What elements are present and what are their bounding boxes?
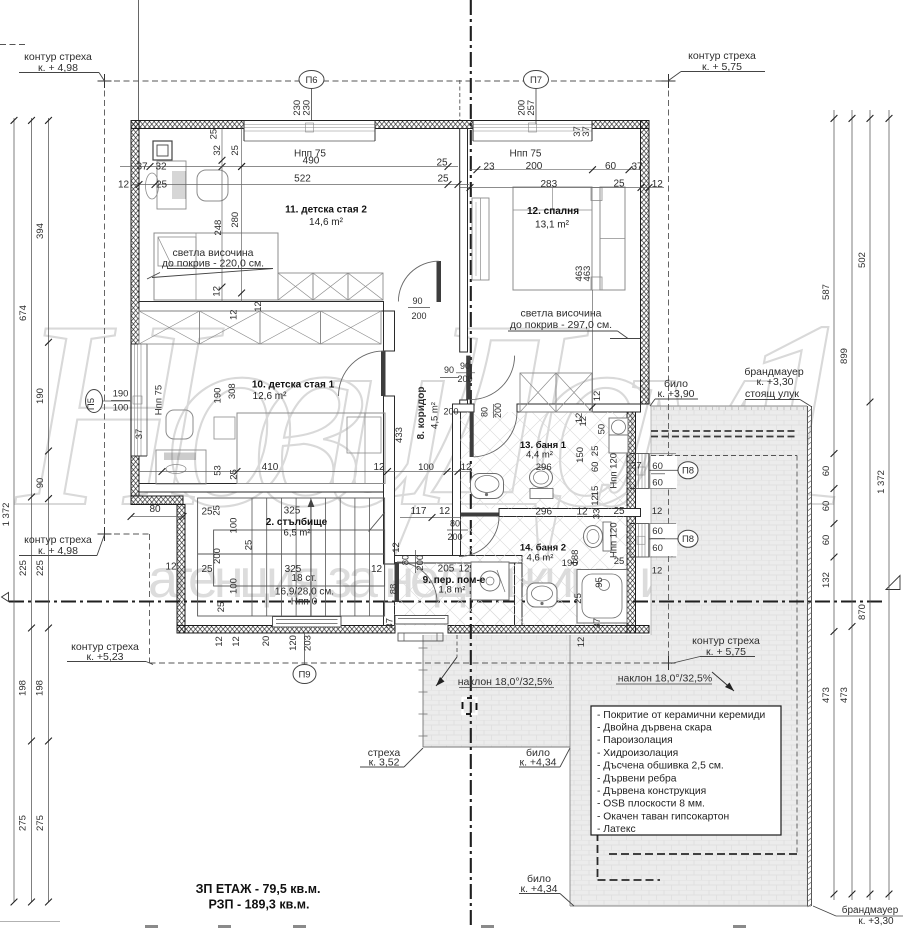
svg-text:60: 60: [652, 461, 663, 472]
svg-text:257: 257: [526, 100, 537, 116]
svg-text:200: 200: [526, 161, 543, 172]
svg-text:25: 25: [590, 446, 601, 457]
svg-text:37: 37: [136, 162, 148, 173]
svg-text:95: 95: [594, 577, 605, 588]
svg-text:25: 25: [244, 540, 255, 551]
svg-text:37: 37: [134, 429, 145, 440]
svg-text:наклон 18,0°/32,5%: наклон 18,0°/32,5%: [458, 676, 552, 688]
svg-text:490: 490: [303, 156, 320, 167]
svg-text:П8: П8: [682, 534, 694, 545]
svg-text:25: 25: [230, 145, 241, 156]
svg-text:80: 80: [480, 407, 490, 417]
svg-text:60: 60: [652, 543, 663, 554]
svg-text:90: 90: [35, 478, 46, 489]
svg-text:12: 12: [652, 566, 663, 577]
svg-text:60: 60: [652, 526, 663, 537]
svg-text:Нпп 75: Нпп 75: [154, 385, 165, 415]
svg-text:190: 190: [213, 388, 224, 404]
svg-text:18 ст.: 18 ст.: [291, 573, 316, 584]
svg-text:899: 899: [839, 348, 850, 364]
svg-text:- Дъсчена обшивка 2,5 см.: - Дъсчена обшивка 2,5 см.: [597, 760, 724, 772]
svg-text:200: 200: [212, 548, 223, 564]
svg-text:150: 150: [575, 447, 586, 463]
svg-text:13,1 m²: 13,1 m²: [535, 220, 570, 231]
svg-text:200: 200: [443, 407, 458, 417]
svg-text:280: 280: [230, 212, 241, 228]
svg-text:502: 502: [857, 252, 868, 268]
svg-text:12: 12: [458, 564, 470, 575]
svg-text:60: 60: [652, 478, 663, 489]
svg-text:120: 120: [288, 635, 299, 651]
svg-text:25: 25: [613, 179, 625, 190]
svg-text:11. детска стая 2: 11. детска стая 2: [285, 205, 367, 216]
svg-text:12: 12: [576, 637, 587, 648]
svg-text:25: 25: [573, 593, 584, 604]
svg-text:П8: П8: [682, 466, 694, 477]
svg-text:14,6 m²: 14,6 m²: [309, 217, 344, 228]
svg-text:12: 12: [118, 180, 130, 191]
svg-text:П7: П7: [530, 75, 542, 86]
svg-text:25: 25: [209, 129, 220, 140]
svg-text:198: 198: [35, 680, 46, 696]
svg-text:12. спалня: 12. спалня: [527, 206, 579, 217]
svg-text:37: 37: [385, 618, 396, 629]
svg-text:4,6 m²: 4,6 m²: [527, 553, 554, 564]
svg-text:25: 25: [216, 602, 227, 613]
svg-text:188: 188: [570, 550, 581, 566]
svg-text:870: 870: [857, 604, 868, 620]
svg-text:4,4 m²: 4,4 m²: [526, 450, 553, 461]
svg-text:50: 50: [597, 424, 608, 435]
svg-text:- Пароизолация: - Пароизолация: [597, 735, 673, 746]
svg-text:308: 308: [227, 383, 238, 399]
svg-text:190: 190: [35, 388, 46, 404]
svg-text:275: 275: [18, 815, 29, 831]
svg-text:473: 473: [839, 687, 850, 703]
svg-text:100: 100: [418, 462, 434, 473]
svg-text:25: 25: [212, 505, 223, 516]
svg-text:100: 100: [229, 518, 240, 534]
svg-text:296: 296: [536, 462, 552, 473]
svg-text:- Дървени ребра: - Дървени ребра: [597, 772, 677, 784]
svg-text:200: 200: [447, 532, 462, 542]
svg-text:Нпп 120: Нпп 120: [609, 522, 620, 558]
svg-text:25: 25: [614, 556, 625, 567]
svg-text:П9: П9: [298, 669, 310, 680]
svg-text:200: 200: [415, 555, 426, 571]
svg-text:132: 132: [821, 572, 832, 588]
svg-text:12: 12: [231, 636, 242, 647]
svg-text:12: 12: [652, 506, 663, 517]
svg-text:15: 15: [590, 486, 601, 497]
svg-text:325: 325: [284, 506, 301, 517]
svg-text:стоящ улук: стоящ улук: [745, 388, 799, 400]
svg-text:- Окачен таван гипсокартон: - Окачен таван гипсокартон: [597, 811, 729, 822]
svg-text:296: 296: [535, 506, 552, 517]
svg-text:32: 32: [155, 162, 167, 173]
svg-text:Нпп 75: Нпп 75: [510, 149, 542, 160]
svg-text:12: 12: [214, 636, 225, 647]
svg-text:до покрив - 220,0 см.: до покрив - 220,0 см.: [162, 258, 264, 270]
svg-text:473: 473: [821, 687, 832, 703]
svg-text:П6: П6: [305, 75, 317, 86]
svg-text:1 372: 1 372: [1, 503, 12, 527]
svg-text:37: 37: [631, 461, 642, 472]
svg-text:53: 53: [213, 465, 224, 476]
svg-text:12: 12: [373, 462, 385, 473]
svg-text:к. +3,30: к. +3,30: [757, 376, 794, 388]
svg-text:12: 12: [253, 301, 264, 312]
svg-text:200: 200: [411, 311, 426, 321]
svg-text:587: 587: [821, 284, 832, 300]
svg-text:283: 283: [540, 179, 557, 190]
svg-text:230: 230: [302, 100, 313, 116]
svg-text:248: 248: [213, 220, 224, 236]
svg-text:80: 80: [149, 504, 161, 515]
svg-text:88: 88: [389, 584, 400, 595]
svg-text:410: 410: [262, 462, 279, 473]
svg-text:117: 117: [411, 506, 427, 517]
svg-text:- Дървена конструкция: - Дървена конструкция: [597, 786, 706, 797]
svg-text:200: 200: [493, 403, 503, 418]
svg-text:203: 203: [302, 635, 313, 651]
svg-text:20: 20: [261, 636, 272, 647]
svg-text:60: 60: [590, 462, 601, 473]
svg-text:1,8 m²: 1,8 m²: [439, 585, 466, 596]
svg-text:до покрив - 297,0 см.: до покрив - 297,0 см.: [510, 319, 612, 331]
svg-text:12: 12: [371, 564, 383, 575]
svg-text:37: 37: [592, 618, 603, 629]
svg-text:225: 225: [18, 560, 29, 576]
svg-text:светла височина: светла височина: [520, 308, 601, 320]
svg-text:522: 522: [294, 174, 311, 185]
svg-text:12: 12: [461, 462, 472, 473]
svg-text:12: 12: [212, 286, 223, 297]
svg-text:- Хидроизолация: - Хидроизолация: [597, 748, 678, 759]
svg-text:12: 12: [229, 309, 240, 320]
svg-text:25: 25: [156, 180, 168, 191]
svg-text:25: 25: [437, 174, 449, 185]
svg-text:- Двойна дървена скара: - Двойна дървена скара: [597, 723, 712, 734]
svg-text:П5: П5: [86, 398, 97, 410]
svg-text:Нпп 120: Нпп 120: [609, 453, 620, 489]
svg-text:80: 80: [450, 519, 460, 529]
svg-text:4,5 m²: 4,5 m²: [430, 402, 441, 429]
svg-text:90: 90: [412, 296, 422, 306]
svg-text:80: 80: [401, 555, 412, 566]
svg-text:10. детска стая 1: 10. детска стая 1: [252, 380, 335, 391]
svg-text:25: 25: [436, 158, 448, 169]
svg-text:32: 32: [212, 145, 223, 156]
svg-text:60: 60: [821, 535, 832, 546]
svg-text:198: 198: [18, 680, 29, 696]
svg-text:Нпп 0: Нпп 0: [291, 597, 318, 608]
svg-text:- Латекс: - Латекс: [597, 824, 636, 835]
svg-text:100: 100: [113, 403, 129, 414]
svg-text:200: 200: [457, 374, 472, 384]
svg-text:1 372: 1 372: [876, 470, 887, 494]
svg-text:наклон 18,0°/32,5%: наклон 18,0°/32,5%: [618, 673, 712, 685]
svg-text:90: 90: [460, 361, 470, 371]
svg-text:12: 12: [592, 391, 603, 402]
svg-text:33: 33: [591, 509, 602, 520]
svg-text:брандмауер: брандмауер: [842, 904, 899, 916]
svg-text:25: 25: [201, 564, 213, 575]
svg-text:275: 275: [35, 815, 46, 831]
svg-text:60: 60: [821, 466, 832, 477]
svg-text:12: 12: [578, 416, 589, 427]
svg-text:225: 225: [35, 560, 46, 576]
svg-text:433: 433: [394, 427, 405, 443]
svg-text:2. стълбище: 2. стълбище: [266, 516, 328, 528]
svg-text:12: 12: [652, 179, 664, 190]
svg-text:25: 25: [229, 469, 240, 480]
svg-text:23: 23: [483, 162, 495, 173]
svg-text:25: 25: [613, 506, 625, 517]
svg-text:12: 12: [439, 506, 451, 517]
svg-text:674: 674: [18, 305, 29, 321]
svg-text:6,5 m²: 6,5 m²: [284, 528, 311, 539]
svg-text:12: 12: [391, 542, 402, 553]
svg-text:8. коридор: 8. коридор: [416, 387, 427, 440]
svg-text:РЗП - 189,3 кв.м.: РЗП - 189,3 кв.м.: [209, 898, 310, 912]
svg-text:190: 190: [113, 389, 129, 400]
svg-text:394: 394: [35, 223, 46, 239]
svg-text:- OSB плоскости 8 мм.: - OSB плоскости 8 мм.: [597, 799, 705, 810]
svg-text:- Покритие от керамични кереми: - Покритие от керамични керемиди: [597, 710, 765, 721]
svg-text:100: 100: [229, 578, 240, 594]
svg-text:90: 90: [444, 365, 454, 375]
svg-text:к. +3,30: к. +3,30: [858, 916, 894, 927]
svg-text:12,6 m²: 12,6 m²: [253, 391, 288, 402]
svg-text:ЗП ЕТАЖ - 79,5 кв.м.: ЗП ЕТАЖ - 79,5 кв.м.: [196, 882, 321, 896]
svg-text:205: 205: [438, 564, 455, 575]
svg-text:37: 37: [631, 162, 643, 173]
svg-text:60: 60: [821, 501, 832, 512]
svg-text:60: 60: [605, 161, 617, 172]
svg-text:к. +3,90: к. +3,90: [658, 388, 695, 400]
svg-text:463: 463: [582, 266, 593, 282]
svg-text:37: 37: [581, 126, 592, 137]
svg-text:12: 12: [165, 562, 177, 573]
svg-text:12: 12: [576, 506, 588, 517]
